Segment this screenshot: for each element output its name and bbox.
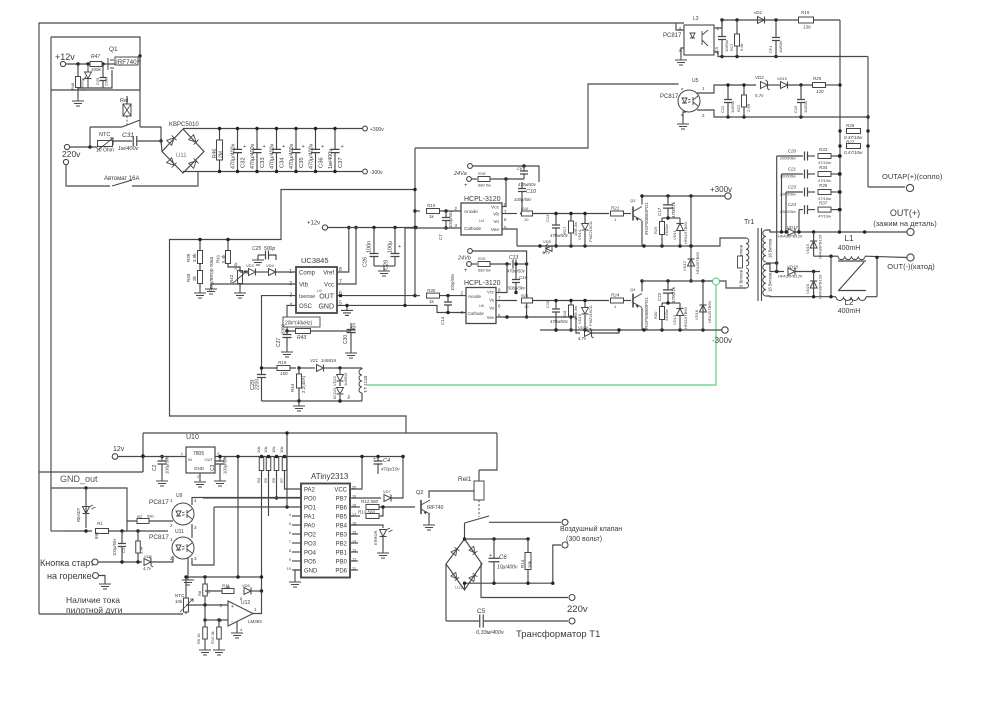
svg-text:R14: R14 [520, 559, 525, 568]
svg-text:PB2: PB2 [336, 542, 348, 548]
svg-text:Cathode: Cathode [464, 226, 482, 231]
svg-text:HFA25TB60: HFA25TB60 [707, 300, 712, 323]
svg-text:R21: R21 [611, 206, 620, 211]
svg-text:PMZ216CA: PMZ216CA [588, 305, 593, 326]
resistor R48 [76, 77, 81, 88]
svg-text:+12v: +12v [55, 52, 75, 62]
capacitor C2 100u/50v [158, 461, 167, 464]
resistor R13 560 [350, 515, 360, 517]
svg-text:9v: 9v [346, 395, 351, 399]
svg-text:470μ/400v: 470μ/400v [270, 143, 276, 169]
svg-text:PO4: PO4 [304, 551, 317, 557]
svg-text:9 Витков: 9 Витков [739, 269, 744, 287]
svg-text:ATiny2313: ATiny2313 [311, 472, 349, 481]
transistor IGBT Q4 bottom [632, 294, 634, 308]
svg-text:Comp: Comp [299, 271, 316, 277]
wire U9-U11 series [191, 524, 193, 538]
svg-text:5.6k: 5.6k [739, 43, 744, 51]
capacitor C15 470u/50v [552, 309, 560, 312]
wire relay to 12v net [478, 470, 480, 481]
svg-text:HFA30PB120: HFA30PB120 [778, 274, 803, 279]
svg-text:R40: R40 [186, 273, 191, 282]
wire Vee pin5 bottom [496, 316, 576, 318]
wire Q2 drain to relay [429, 491, 474, 498]
node 220v terminal upper [64, 144, 69, 149]
resistor R43 box 20k(40kHz) [283, 317, 320, 327]
wire U9 out [192, 498, 301, 506]
svg-text:C10: C10 [526, 189, 537, 195]
svg-text:Vo: Vo [489, 306, 495, 311]
svg-text:10 Ohm: 10 Ohm [96, 148, 114, 154]
svg-text:470м/50v: 470м/50v [550, 319, 569, 324]
resistor R25 120 [813, 83, 826, 88]
resistor R20 1k [427, 293, 440, 298]
svg-text:VD19: VD19 [805, 243, 810, 254]
svg-text:U11: U11 [176, 153, 187, 159]
svg-text:PC817: PC817 [149, 499, 169, 506]
svg-text:R1: R1 [97, 521, 103, 526]
svg-text:Vcc: Vcc [487, 290, 494, 295]
svg-text:3.9k: 3.9k [139, 546, 144, 554]
svg-text:C29: C29 [95, 77, 100, 85]
svg-text:vD1: vD1 [754, 10, 762, 15]
svg-text:14: 14 [352, 540, 356, 544]
svg-text:5,7v: 5,7v [755, 93, 764, 98]
svg-text:+: + [464, 268, 468, 274]
svg-text:1000/3kv: 1000/3kv [780, 209, 797, 214]
svg-text:OUT(-)(катод): OUT(-)(катод) [887, 262, 935, 271]
svg-text:1k: 1k [429, 214, 435, 219]
svg-text:IRGP50B60PD1: IRGP50B60PD1 [644, 202, 649, 235]
svg-text:+300v: +300v [370, 127, 384, 133]
svg-text:HFA15TB60: HFA15TB60 [683, 221, 688, 244]
svg-text:120: 120 [816, 89, 824, 94]
svg-text:580: 580 [147, 514, 154, 519]
svg-text:C21: C21 [788, 167, 797, 172]
svg-text:R44: R44 [290, 383, 295, 392]
svg-text:Vs: Vs [489, 298, 494, 303]
svg-text:U4: U4 [479, 218, 485, 223]
svg-text:R10 3k: R10 3k [210, 631, 215, 644]
svg-text:HCPL-3120: HCPL-3120 [464, 280, 501, 287]
svg-text:HFA25TB60: HFA25TB60 [695, 251, 700, 274]
svg-text:470μ/400v: 470μ/400v [250, 143, 256, 169]
wire collector to mid rail [641, 281, 643, 292]
resistor R26 10 [522, 298, 533, 303]
svg-text:5: 5 [289, 522, 291, 526]
svg-text:100μ: 100μ [388, 241, 394, 253]
svg-text:C2: C2 [152, 464, 158, 471]
svg-text:R48: R48 [70, 82, 75, 90]
svg-text:PA2: PA2 [304, 488, 316, 494]
svg-text:VD10: VD10 [777, 76, 788, 81]
transistor IGBT Q3 top [632, 207, 634, 221]
svg-text:10/50v: 10/50v [730, 101, 735, 113]
resistor R15 1k [415, 210, 420, 212]
svg-text:10k: 10k [175, 599, 183, 604]
svg-text:PB6: PB6 [336, 506, 348, 512]
ground R40 [194, 288, 206, 298]
svg-text:400mH: 400mH [838, 308, 861, 315]
svg-text:Наличие тока: Наличие тока [66, 595, 120, 605]
capacitor C30 100n [350, 323, 352, 331]
capacitor C13 470u/50v [552, 225, 560, 228]
capacitor C5 0.33m/400v [445, 564, 447, 621]
svg-text:R30: R30 [653, 311, 658, 319]
svg-text:C34: C34 [280, 157, 286, 168]
resistor R10 3k [217, 627, 222, 639]
svg-text:R6: R6 [271, 477, 276, 483]
wire pullup verticals [261, 471, 263, 592]
svg-text:R24: R24 [611, 293, 620, 298]
svg-text:VD8: VD8 [543, 239, 552, 244]
svg-text:3300: 3300 [281, 323, 286, 334]
svg-text:470μ/10v: 470μ/10v [381, 467, 400, 472]
svg-text:на горелке: на горелке [47, 571, 92, 581]
svg-text:7: 7 [289, 540, 291, 544]
svg-text:680 5w: 680 5w [478, 183, 491, 188]
wire snubber left verticals [776, 156, 778, 272]
svg-text:-300v: -300v [712, 336, 732, 345]
resistor R1 890 [96, 529, 109, 534]
svg-text:Автомат 16А: Автомат 16А [104, 176, 140, 182]
wire emitter to -300 rail [641, 308, 643, 330]
svg-text:U2: U2 [317, 288, 323, 293]
svg-text:PD6: PD6 [335, 569, 347, 575]
zener VD22 [337, 375, 344, 382]
svg-text:Vref: Vref [323, 271, 334, 277]
svg-text:4,7v: 4,7v [143, 566, 152, 571]
wire VCC ATiny to 12v rail [350, 457, 362, 490]
node +300v small terminal [363, 126, 368, 131]
svg-text:Vo: Vo [493, 219, 499, 225]
resistor R26 0.47/10w [847, 129, 861, 134]
svg-text:10/50v: 10/50v [803, 101, 808, 113]
wire out to HCPL drivers vertical [415, 84, 679, 148]
svg-text:R25: R25 [813, 76, 822, 81]
zener VD [83, 72, 92, 81]
svg-text:Q1: Q1 [109, 46, 118, 53]
svg-text:Rel1: Rel1 [458, 476, 472, 483]
diode VD13 HFA15TB60 bottom [677, 309, 684, 316]
resistor R27 0.47/10w [847, 144, 861, 149]
svg-text:100p/50v: 100p/50v [514, 197, 532, 202]
resistor R18 680 5w [472, 178, 478, 180]
pin wires UC3845 right [337, 228, 349, 273]
node valve terminal 2 [562, 542, 568, 548]
resistor R19 150 [277, 366, 290, 371]
wire left long vertical [50, 37, 52, 531]
svg-text:1000/3kv: 1000/3kv [780, 192, 797, 197]
wire button net [98, 561, 143, 563]
capacitor C9 10/50v [718, 37, 726, 40]
capacitor C8 470u/50v [520, 171, 528, 174]
svg-text:R47: R47 [91, 54, 100, 60]
svg-text:+: + [282, 144, 285, 150]
svg-text:IRF740: IRF740 [427, 505, 444, 511]
svg-text:R27: R27 [846, 140, 855, 145]
svg-text:C8: C8 [517, 166, 523, 171]
svg-text:10μ/400v: 10μ/400v [497, 565, 518, 571]
svg-text:R4: R4 [256, 477, 261, 483]
wire primary top lead [703, 238, 746, 246]
wire primary bottom lead [720, 281, 747, 288]
svg-text:-: - [231, 619, 233, 625]
wire valve terminal 1 [489, 521, 561, 523]
zener VD PMZ216CA [582, 224, 589, 231]
capacitor C21 1000/3kv + resistor R34 47/10w [782, 173, 804, 175]
svg-text:PMZ216CA: PMZ216CA [588, 221, 593, 242]
svg-text:R39: R39 [186, 253, 191, 262]
svg-text:CF1: CF1 [768, 45, 773, 53]
svg-text:10k: 10k [263, 447, 268, 453]
svg-text:15: 15 [352, 531, 356, 535]
svg-text:470м/50v: 470м/50v [518, 182, 537, 187]
svg-text:500p/3kv: 500p/3kv [508, 286, 526, 291]
wire emitter down [641, 221, 643, 246]
svg-text:8: 8 [289, 549, 291, 553]
svg-text:+: + [223, 456, 226, 462]
resistor R2 580 [137, 519, 149, 524]
ground C26 C28 [374, 265, 384, 267]
wire Q1 block box [51, 37, 140, 90]
svg-text:47/10w: 47/10w [818, 214, 831, 219]
svg-text:R16: R16 [521, 206, 529, 211]
svg-text:4,7v: 4,7v [542, 250, 551, 255]
svg-text:1k: 1k [206, 590, 211, 594]
svg-text:PO1: PO1 [304, 506, 317, 512]
svg-text:18 Витков: 18 Витков [768, 272, 773, 292]
svg-text:VD22: VD22 [332, 375, 337, 386]
svg-text:U5: U5 [692, 78, 699, 84]
svg-text:C33: C33 [260, 157, 266, 168]
wire bottom net y56.5 [714, 52, 868, 57]
wire PB7 flyback diode [350, 497, 381, 499]
resistor R11 3k [204, 590, 206, 592]
svg-text:2200: 2200 [255, 379, 261, 390]
wire 24Va top [473, 166, 540, 182]
svg-text:Q3: Q3 [630, 198, 636, 203]
wire U5 out top [697, 85, 756, 93]
svg-text:4: 4 [289, 513, 291, 517]
wire OUT pin6 [337, 295, 415, 297]
wire Vee pin5 [502, 229, 517, 246]
svg-text:R13 560: R13 560 [358, 510, 376, 515]
diode VD11 HFA15TB60 [677, 224, 684, 231]
capacitor C14 100p/50v [446, 294, 449, 297]
svg-text:UC3845: UC3845 [301, 256, 329, 265]
svg-text:Isense: Isense [299, 294, 315, 300]
wire bridge bottom rail [464, 583, 466, 590]
wire +12 rail [328, 227, 416, 229]
capacitor C34 [276, 129, 278, 150]
svg-text:C7: C7 [438, 234, 443, 240]
svg-text:VD15: VD15 [577, 313, 582, 324]
svg-text:U11: U11 [175, 529, 184, 535]
svg-text:C32: C32 [241, 157, 247, 168]
svg-text:470μ/400v: 470μ/400v [231, 143, 237, 169]
svg-text:1000/3kv: 1000/3kv [780, 174, 797, 179]
svg-text:R19: R19 [478, 256, 486, 261]
svg-text:U10: U10 [186, 434, 199, 441]
wire +300 bus top [183, 128, 362, 130]
wire Vb pin7 bottom [496, 300, 517, 302]
wire 12v rail bottom [118, 456, 160, 458]
wire drain bus down [139, 56, 141, 127]
svg-text:PA0: PA0 [304, 524, 316, 530]
wire sense top [262, 367, 297, 369]
svg-text:КС223: КС223 [333, 388, 337, 399]
svg-text:C9: C9 [714, 46, 719, 52]
svg-text:5.4k: 5.4k [221, 254, 226, 263]
svg-text:L2: L2 [845, 298, 854, 307]
svg-text:VD14: VD14 [577, 229, 582, 240]
svg-text:PC817: PC817 [663, 33, 682, 39]
resistor R14 20k [525, 553, 531, 570]
svg-text:C5: C5 [477, 608, 486, 615]
resistor R9 1k [203, 627, 208, 639]
wire L3 pin1 to top net [714, 20, 722, 28]
wire valve switch [464, 523, 466, 539]
svg-text:20k*(40кHz): 20k*(40кHz) [285, 321, 313, 327]
svg-text:R22: R22 [736, 104, 741, 112]
svg-text:(300 вольт): (300 вольт) [566, 536, 602, 543]
svg-text:C27: C27 [276, 338, 282, 347]
svg-text:PA1: PA1 [304, 515, 316, 521]
svg-text:VD7: VD7 [383, 489, 392, 494]
resistor R15t 130 [799, 17, 814, 23]
svg-text:+: + [243, 144, 246, 150]
ground U11 emitter [187, 558, 189, 575]
svg-text:C22: C22 [657, 292, 662, 301]
svg-text:IN: IN [188, 457, 192, 462]
svg-text:R17: R17 [562, 226, 567, 234]
svg-text:R46: R46 [212, 149, 218, 158]
svg-text:VD5: VD5 [144, 554, 153, 559]
resistor R40 2k [198, 271, 203, 284]
coupling symbol Z [838, 260, 866, 262]
ground GND pin5 [341, 305, 353, 315]
ground U10 [199, 473, 201, 477]
capacitor C26 100n [373, 228, 375, 254]
svg-text:C14: C14 [440, 316, 445, 325]
svg-text:PO5: PO5 [304, 560, 317, 566]
svg-text:R35: R35 [819, 183, 828, 188]
svg-text:C13: C13 [509, 255, 518, 261]
wire GND pin5 [337, 305, 466, 312]
svg-text:NTC: NTC [175, 593, 185, 598]
wire to 220v terminal 1 [481, 564, 568, 598]
wire collector to +300 rail [641, 196, 643, 205]
capacitor C4 470u/10v [374, 461, 383, 464]
svg-text:-300v: -300v [370, 170, 383, 176]
ground R9 [199, 645, 211, 655]
wire -300 bus bottom [183, 171, 362, 173]
svg-text:Anode: Anode [464, 209, 478, 215]
wire sense bottom [262, 400, 363, 402]
capacitor C3 100u/50v [216, 461, 225, 464]
svg-text:KBPC5010: KBPC5010 [169, 122, 199, 128]
ground L3 [681, 48, 684, 55]
svg-text:C20: C20 [788, 149, 797, 154]
svg-text:PO3: PO3 [304, 542, 317, 548]
resistor R12 560 [350, 506, 360, 508]
svg-text:OUT: OUT [205, 457, 214, 462]
svg-text:+: + [373, 456, 376, 462]
wire comparator out [253, 591, 262, 614]
svg-text:470μ/400v: 470μ/400v [289, 143, 295, 169]
svg-text:100p/50v: 100p/50v [450, 273, 455, 291]
wire comp input [240, 271, 248, 273]
svg-text:HFA15TB60: HFA15TB60 [683, 306, 688, 329]
svg-text:890: 890 [94, 531, 99, 539]
svg-text:PO0: PO0 [304, 497, 317, 503]
svg-text:0,47/10w: 0,47/10w [844, 150, 863, 155]
svg-text:VD11: VD11 [672, 230, 677, 240]
svg-text:L1: L1 [845, 234, 854, 243]
wire mains upper [70, 146, 97, 148]
svg-text:100n: 100n [352, 323, 358, 334]
diode VD20 [813, 272, 815, 297]
svg-text:Vtb: Vtb [299, 283, 309, 289]
resistor R27b 1M [569, 305, 574, 317]
svg-text:C15: C15 [545, 300, 550, 308]
svg-text:150: 150 [280, 371, 288, 376]
svg-text:220v: 220v [567, 604, 588, 615]
svg-text:R43: R43 [297, 335, 306, 341]
wire mid rail 281 [642, 280, 713, 282]
resistor R19b 680 5w [472, 263, 478, 265]
capacitor CF1 10/50v [772, 38, 780, 41]
wire minus input [219, 619, 228, 621]
svg-text:U6: U6 [479, 303, 485, 308]
svg-text:READY: READY [76, 506, 81, 522]
svg-text:R29: R29 [653, 226, 658, 234]
svg-text:VD12: VD12 [682, 260, 687, 271]
zener VD23 9v [337, 388, 344, 395]
svg-text:100n: 100n [367, 241, 373, 253]
svg-text:12v: 12v [113, 446, 125, 453]
svg-text:0,33м/400v: 0,33м/400v [476, 630, 505, 636]
resistor R39 3.9k [198, 251, 203, 264]
ground sense [293, 401, 305, 411]
resistor R29 3300w [660, 222, 665, 235]
svg-text:HFA30PB120: HFA30PB120 [818, 274, 823, 299]
svg-text:R18: R18 [478, 171, 486, 176]
svg-text:VD4: VD4 [266, 263, 275, 268]
wire GND pin ATiny [295, 570, 301, 577]
svg-text:R15: R15 [427, 203, 436, 208]
capacitor C33 [256, 129, 258, 150]
node OUTAP terminal [868, 186, 905, 188]
svg-text:24Vb: 24Vb [457, 256, 471, 262]
svg-text:R30: R30 [427, 288, 436, 293]
capacitor C gate [100, 78, 107, 81]
svg-text:GND: GND [318, 304, 334, 311]
svg-text:C36: C36 [319, 157, 325, 168]
svg-text:PB1: PB1 [336, 551, 348, 557]
svg-text:10k: 10k [256, 447, 261, 453]
svg-text:680 5w: 680 5w [478, 268, 491, 273]
diode VD12 HFA25TB60 freewheel top [690, 196, 692, 281]
svg-text:VD20: VD20 [805, 283, 810, 294]
svg-text:2.2k: 2.2k [233, 262, 238, 270]
svg-text:1k: 1k [429, 299, 435, 304]
wire green feedback [366, 285, 716, 385]
wire U5 out bottom [697, 110, 868, 117]
svg-text:PC817: PC817 [149, 534, 169, 541]
wire lower sec bottom [766, 295, 836, 298]
